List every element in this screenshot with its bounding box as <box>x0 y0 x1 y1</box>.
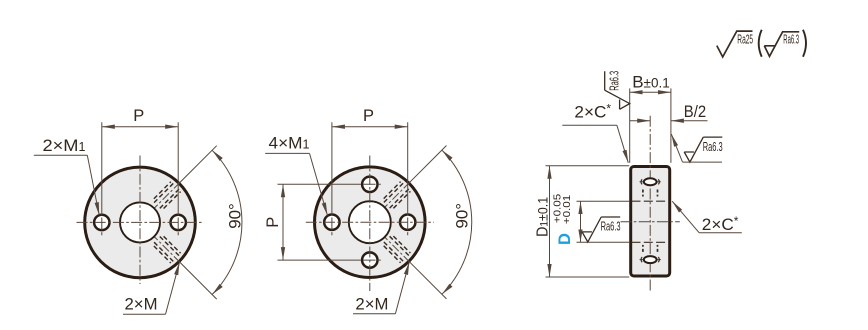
svg-text:Ra25: Ra25 <box>737 32 753 46</box>
svg-text:D1±0.1: D1±0.1 <box>534 197 551 237</box>
svg-text:P: P <box>363 107 374 125</box>
svg-text:2×M: 2×M <box>125 295 158 314</box>
svg-text:P: P <box>133 107 144 125</box>
svg-text:2×C*: 2×C* <box>702 214 739 234</box>
svg-text:Ra6.3: Ra6.3 <box>703 140 723 154</box>
svg-text:Ra6.3: Ra6.3 <box>607 71 621 91</box>
svg-text:2×C*: 2×C* <box>574 101 611 121</box>
svg-text:+0.01: +0.01 <box>561 195 573 225</box>
svg-text:P: P <box>264 217 282 228</box>
svg-text:Ra6.3: Ra6.3 <box>783 32 799 46</box>
svg-text:90°: 90° <box>454 203 472 229</box>
svg-text:90°: 90° <box>227 203 245 229</box>
svg-text:2×M: 2×M <box>355 294 388 313</box>
svg-text:D: D <box>556 233 574 245</box>
svg-text:B/2: B/2 <box>684 102 706 121</box>
svg-text:B±0.1: B±0.1 <box>632 73 670 92</box>
svg-text:Ra6.3: Ra6.3 <box>601 220 621 234</box>
